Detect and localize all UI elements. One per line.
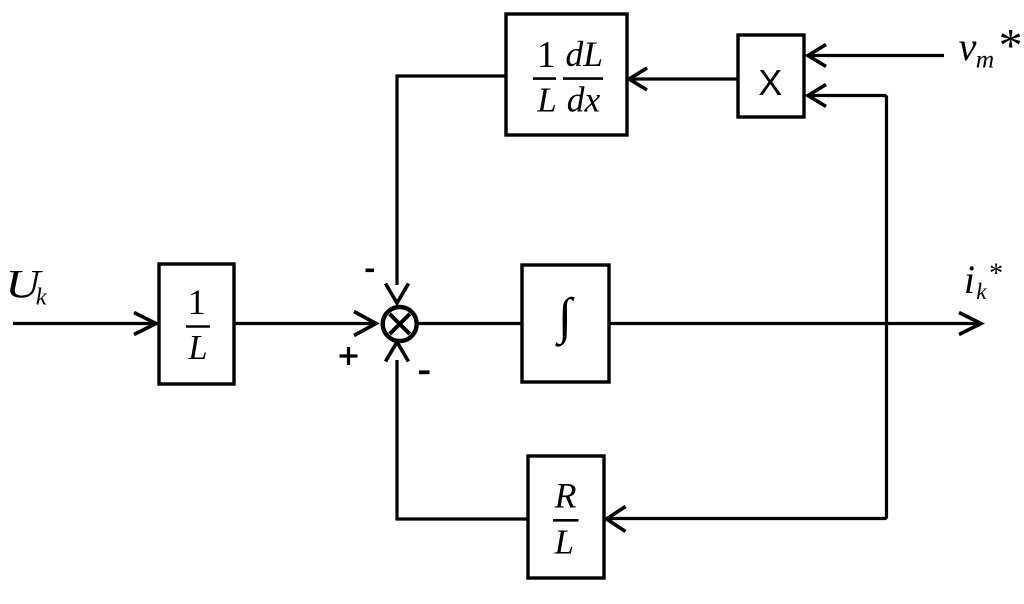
- svg-text:L: L: [187, 329, 207, 367]
- svg-text:k: k: [976, 279, 987, 304]
- svg-text:1: 1: [188, 282, 206, 322]
- svg-text:k: k: [36, 284, 48, 311]
- svg-text:v: v: [959, 24, 977, 69]
- svg-text:i: i: [964, 257, 975, 302]
- svg-text:dx: dx: [567, 80, 601, 120]
- svg-text:X: X: [758, 62, 782, 103]
- svg-text:dL: dL: [566, 34, 604, 74]
- svg-text:L: L: [536, 81, 556, 120]
- svg-text:*: *: [989, 258, 1003, 289]
- svg-text:1: 1: [537, 34, 556, 76]
- svg-text:R: R: [554, 476, 577, 516]
- svg-text:L: L: [553, 523, 573, 562]
- svg-text:m: m: [976, 45, 994, 74]
- svg-text:*: *: [999, 20, 1023, 73]
